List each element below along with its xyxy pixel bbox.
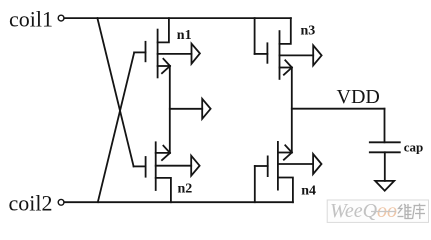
svg-text:n3: n3 xyxy=(301,24,316,39)
wire coil1 to n3 gate xyxy=(254,18,256,54)
wire capacitor to ground xyxy=(384,152,386,181)
capacitor cap xyxy=(370,141,400,143)
wire coil1 to n2 gate (diagonal) xyxy=(97,18,133,166)
wire n1 source to n2 source xyxy=(169,66,171,153)
port triangle at n3 bulk xyxy=(313,45,321,65)
svg-text:WeeQ: WeeQ xyxy=(330,200,378,222)
transistor n3 xyxy=(255,18,292,79)
transistor n1 xyxy=(134,18,170,77)
wire n3 source to n4 source xyxy=(291,68,293,153)
wire VDD to capacitor xyxy=(384,109,386,143)
svg-text:n1: n1 xyxy=(177,28,192,43)
wire coil2 to n4 gate xyxy=(254,166,256,202)
wire coil2 to n1 gate (diagonal) xyxy=(98,52,134,202)
svg-text:coil1: coil1 xyxy=(9,7,53,32)
port triangle at n1 bulk xyxy=(192,44,200,64)
svg-text:cap: cap xyxy=(404,139,424,154)
wire VDD node xyxy=(292,108,385,110)
ground xyxy=(375,181,394,191)
wire coil2 horizontal xyxy=(64,201,293,203)
svg-text:VDD: VDD xyxy=(337,86,380,108)
svg-text:n4: n4 xyxy=(301,184,316,199)
svg-text:coil2: coil2 xyxy=(9,190,53,215)
wire coil1 horizontal xyxy=(64,17,291,19)
wire mid node to port xyxy=(170,108,202,110)
terminal coil2 xyxy=(58,199,64,205)
bulk stub n1 xyxy=(158,53,192,55)
watermark xyxy=(327,200,428,222)
transistor n4 xyxy=(255,142,293,202)
bulk stub n4 xyxy=(278,163,313,165)
bulk stub n2 xyxy=(156,165,192,167)
terminal coil1 xyxy=(58,15,64,21)
transistor n2 xyxy=(134,142,171,202)
port triangle mid node xyxy=(202,99,210,119)
port triangle at n2 bulk xyxy=(191,156,199,176)
svg-text:n2: n2 xyxy=(178,182,193,197)
bulk stub n3 xyxy=(280,54,314,56)
port triangle at n4 bulk xyxy=(313,154,321,174)
